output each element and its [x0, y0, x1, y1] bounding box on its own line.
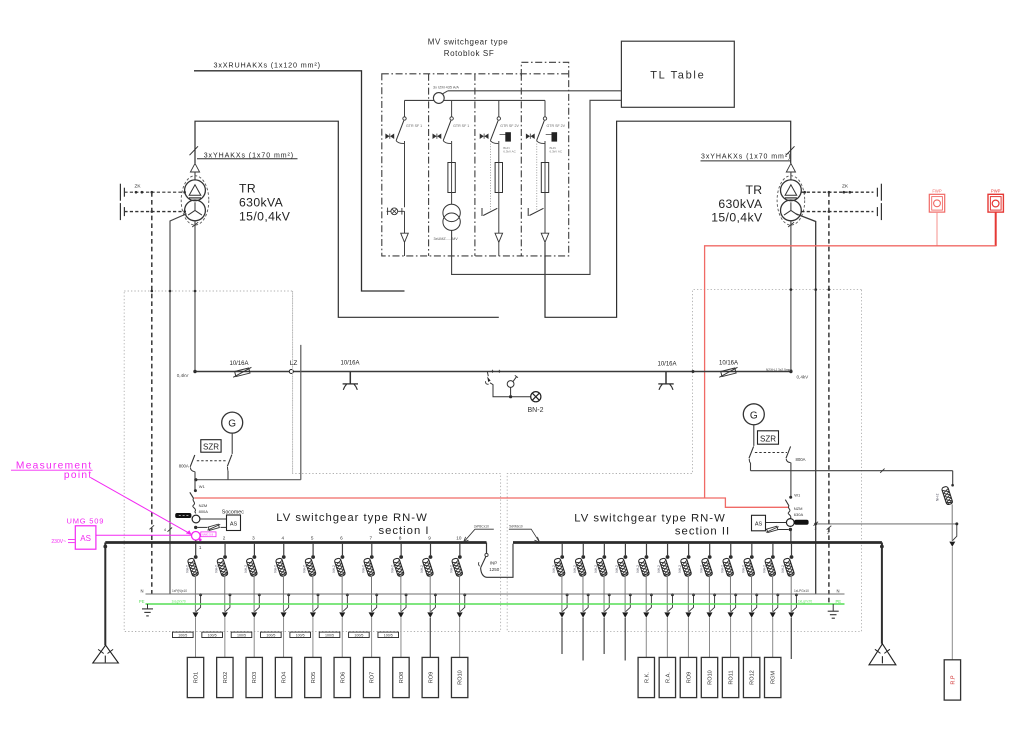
svg-text:15/0,4kV: 15/0,4kV	[711, 211, 763, 225]
feeder section II outgoing 1	[561, 544, 563, 555]
svg-text:100/5: 100/5	[178, 634, 187, 638]
changeover switch pair W1/SZR (section I)	[190, 455, 195, 467]
feeder section II outgoing 10 RO12	[751, 544, 753, 555]
generator G (section I)	[222, 412, 243, 433]
feeder section II outgoing 3	[603, 544, 605, 555]
wire: MV bay4 to right transformer	[545, 121, 791, 317]
svg-text:TL Table: TL Table	[650, 70, 705, 82]
MV bay switch GTR SF 2V at x=545	[544, 100, 546, 116]
svg-text:W1: W1	[199, 484, 206, 489]
svg-text:6: 6	[340, 536, 343, 541]
boundary crossing points	[151, 290, 154, 293]
cable tag right of coupler	[509, 529, 540, 542]
svg-text:NH-2: NH-2	[273, 565, 277, 573]
svg-text:RO8: RO8	[399, 672, 405, 684]
fuse (AS supply)	[208, 524, 219, 530]
svg-text:1xP(N)x10: 1xP(N)x10	[172, 589, 187, 593]
svg-text:GTR SF 2V: GTR SF 2V	[500, 124, 519, 128]
meter circle	[192, 515, 200, 523]
svg-text:N: N	[837, 589, 840, 594]
feeder section II outgoing 6 R.A.	[667, 544, 669, 555]
svg-text:AS: AS	[755, 522, 763, 528]
svg-text:RO2: RO2	[223, 672, 229, 684]
svg-text:NH-2: NH-2	[215, 565, 219, 573]
svg-text:NH-2: NH-2	[552, 565, 556, 573]
svg-text:3x IZM 435 A/A: 3x IZM 435 A/A	[433, 86, 459, 90]
svg-text:NH-2: NH-2	[720, 565, 724, 573]
svg-text:AS: AS	[80, 534, 91, 543]
wire: LZ riser	[300, 345, 302, 480]
svg-text:GTR SF 2V: GTR SF 2V	[547, 124, 566, 128]
svg-text:RO5: RO5	[311, 672, 317, 684]
svg-text:section II: section II	[675, 525, 730, 537]
svg-text:NH-2: NH-2	[185, 565, 189, 573]
svg-text:10/16A: 10/16A	[719, 361, 738, 367]
SZR box (section I)	[201, 440, 221, 453]
svg-text:R.P: R.P	[950, 675, 956, 685]
wire: TL Table to MV bay2 VT	[452, 100, 622, 274]
svg-text:SZR: SZR	[760, 435, 776, 444]
svg-text:RO6: RO6	[340, 672, 346, 684]
svg-text:LZ: LZ	[290, 360, 298, 367]
svg-text:NH-2: NH-2	[361, 565, 365, 573]
svg-text:FWP: FWP	[932, 188, 942, 193]
meter circle II	[786, 519, 794, 527]
bay fuse + earthing switch at x=545	[544, 141, 546, 163]
svg-text:0,4kV: 0,4kV	[177, 373, 190, 378]
svg-text:800A: 800A	[199, 509, 209, 514]
lamp circuit BN-2	[486, 372, 489, 376]
svg-text:3: 3	[252, 536, 255, 541]
fuse (AS supply) II	[767, 526, 778, 532]
svg-text:NH-2: NH-2	[936, 493, 940, 501]
svg-text:NH-2: NH-2	[657, 565, 661, 573]
svg-text:section I: section I	[378, 525, 429, 537]
wire: transformer secondary	[194, 221, 196, 372]
wire: transformer secondary	[790, 221, 792, 372]
svg-text:1xLgYx70: 1xLgYx70	[798, 599, 812, 603]
svg-text:5: 5	[311, 536, 314, 541]
svg-text:N: N	[140, 589, 143, 594]
metering CT (black)	[176, 513, 191, 517]
wire: 0,4kV auxiliary bus	[195, 371, 791, 373]
svg-text:GTR SF 1: GTR SF 1	[406, 124, 422, 128]
svg-text:0,4kV: 0,4kV	[797, 375, 810, 380]
LV switchgear section II dotted boundary	[507, 290, 861, 632]
svg-text:NH-2: NH-2	[391, 565, 395, 573]
svg-text:NH-2: NH-2	[741, 565, 745, 573]
svg-text:UMG 509: UMG 509	[67, 517, 105, 526]
svg-text:NZM: NZM	[199, 503, 208, 508]
svg-text:1: 1	[199, 545, 202, 550]
svg-text:5xRMx10: 5xRMx10	[509, 525, 523, 529]
svg-text:630kVA: 630kVA	[718, 197, 763, 211]
wire: incomer II	[790, 463, 792, 497]
svg-text:100/5: 100/5	[266, 634, 275, 638]
svg-text:RO4: RO4	[282, 672, 288, 684]
svg-text:10: 10	[456, 536, 462, 541]
metering CT (black) II	[795, 520, 809, 524]
svg-text:10/16A: 10/16A	[657, 361, 676, 367]
svg-text:15/0,4kV: 15/0,4kV	[239, 210, 291, 224]
wire: CT to TL Table	[448, 90, 622, 92]
svg-text:4: 4	[164, 528, 166, 532]
svg-text:3xYHAKXs (1x70 mm²): 3xYHAKXs (1x70 mm²)	[701, 154, 791, 161]
switch drive	[526, 134, 534, 139]
surge arrester column left	[104, 543, 106, 646]
svg-text:RGM: RGM	[771, 671, 777, 684]
svg-text:7: 7	[370, 536, 373, 541]
svg-text:point: point	[64, 470, 93, 481]
SZR box (section II)	[758, 431, 779, 444]
wire: MV cabinet bus	[405, 99, 546, 101]
svg-text:NH-2: NH-2	[678, 565, 682, 573]
svg-text:INP: INP	[490, 561, 498, 566]
MV bay switch GTR SF 2V at x=498.8	[498, 100, 500, 116]
svg-text:NH-2: NH-2	[615, 565, 619, 573]
svg-text:R.K.: R.K.	[644, 672, 650, 683]
svg-text:NH-2: NH-2	[332, 565, 336, 573]
svg-text:3xUMZ......MV: 3xUMZ......MV	[434, 237, 459, 241]
transformer TR 630kVA (right)	[786, 146, 795, 155]
svg-text:1250: 1250	[489, 567, 500, 572]
svg-text:800A: 800A	[796, 457, 806, 462]
svg-text:100/5: 100/5	[208, 634, 217, 638]
feeder section II outgoing 8 RO10	[709, 544, 711, 555]
wire: UMG to measurement point	[96, 534, 191, 536]
TL Table box	[621, 41, 734, 107]
svg-text:W1: W1	[794, 493, 801, 498]
svg-text:2: 2	[815, 527, 817, 531]
wire: red trip circuit	[705, 246, 996, 498]
svg-text:NZM: NZM	[794, 506, 803, 511]
MV bay switch GTR SF 1 at x=451.6	[451, 100, 453, 116]
wire: MV incoming cable	[194, 71, 405, 291]
svg-text:NH-2: NH-2	[420, 565, 424, 573]
svg-text:R.A.: R.A.	[665, 672, 671, 683]
wire: generator coupling to R.P feeder	[751, 470, 953, 472]
LV main bus section I	[105, 541, 486, 544]
lamp BN-2	[531, 392, 541, 402]
feeder RO1 (section I outgoing 1)	[195, 544, 197, 555]
svg-text:RO11: RO11	[729, 670, 735, 684]
svg-text:MV switchgear type: MV switchgear type	[428, 38, 509, 47]
svg-text:2: 2	[223, 536, 226, 541]
svg-text:NH-2: NH-2	[573, 565, 577, 573]
feeder section II outgoing 5 R.K.	[645, 544, 647, 555]
svg-text:ZK: ZK	[842, 183, 849, 189]
wire down to main breaker	[194, 480, 196, 491]
generator G (section II)	[743, 404, 764, 425]
svg-text:PE: PE	[139, 599, 145, 604]
measurement point (magenta circle)	[192, 532, 201, 541]
feeder section II outgoing 12	[791, 544, 793, 555]
svg-text:1xLgYx70: 1xLgYx70	[172, 599, 186, 603]
svg-text:SZR: SZR	[203, 443, 219, 452]
svg-text:6,3kV AC: 6,3kV AC	[550, 150, 563, 154]
wire: MV bay3 to left transformer	[195, 121, 499, 317]
svg-text:AS: AS	[230, 521, 238, 527]
svg-text:N2XH-J 3x2,5mm²: N2XH-J 3x2,5mm²	[766, 368, 792, 372]
svg-text:100/5: 100/5	[237, 634, 246, 638]
wire: neutral branch to R.P	[816, 523, 957, 525]
feeder R.P (generator supplied)	[952, 471, 954, 487]
wire: right transformer neutral	[796, 214, 816, 594]
svg-text:10/16A: 10/16A	[340, 361, 359, 367]
svg-text:NH-2: NH-2	[449, 565, 453, 573]
svg-text:UMG 5.9: UMG 5.9	[202, 533, 213, 537]
earth symbol right	[832, 604, 834, 611]
MV cabinet top notch (bay 4)	[521, 62, 568, 76]
current transformer 3x IZM 435 A/A	[443, 91, 448, 94]
svg-text:2: 2	[827, 531, 829, 535]
svg-text:230V~: 230V~	[51, 539, 66, 545]
svg-text:4: 4	[281, 536, 284, 541]
svg-text:8: 8	[399, 536, 402, 541]
main breaker NZM 800A (section I)	[190, 492, 194, 498]
pushbutton	[509, 395, 512, 398]
svg-text:RO12: RO12	[750, 670, 756, 685]
bay fuse + earthing switch at x=498.8	[498, 141, 500, 163]
transformer TR 630kVA (left)	[190, 146, 199, 155]
protective earth bus PE (green)	[146, 603, 845, 605]
svg-text:NH-2: NH-2	[594, 565, 598, 573]
svg-text:BN-2: BN-2	[528, 407, 544, 414]
svg-text:RO3: RO3	[252, 672, 258, 684]
svg-text:6,3kV AC: 6,3kV AC	[503, 150, 516, 154]
svg-text:RO10: RO10	[458, 670, 464, 685]
feeder section II outgoing 2	[582, 544, 584, 555]
svg-text:PE: PE	[836, 599, 842, 604]
wire: left transformer neutral	[170, 214, 187, 594]
dashed neutral-earth riser right	[828, 192, 830, 604]
switch drive	[386, 134, 394, 139]
feeder section II outgoing 9 RO11	[730, 544, 732, 555]
LV switchgear section I dotted boundary	[124, 291, 500, 632]
svg-text:9: 9	[428, 536, 431, 541]
ZK earthing link left	[124, 191, 184, 193]
switch drive	[480, 134, 488, 139]
surge arrester column right	[881, 543, 883, 644]
svg-text:PWP: PWP	[991, 188, 1001, 193]
svg-text:100/5: 100/5	[296, 634, 305, 638]
main breaker NZM 630A (section II)	[785, 500, 789, 506]
svg-text:NH-2: NH-2	[781, 565, 785, 573]
svg-text:RO10: RO10	[707, 670, 713, 685]
svg-text:TR: TR	[239, 182, 256, 196]
svg-text:RO9: RO9	[428, 672, 434, 684]
svg-text:630kVA: 630kVA	[239, 195, 284, 209]
svg-text:100/5: 100/5	[384, 634, 393, 638]
dashed neutral-earth riser left	[151, 192, 153, 594]
feeder section II outgoing 7 RO9	[688, 544, 690, 555]
svg-text:630A: 630A	[794, 512, 804, 517]
svg-text:3xPBCx10: 3xPBCx10	[474, 525, 489, 529]
feeder section II outgoing 4	[624, 544, 626, 555]
svg-text:ZK: ZK	[135, 183, 142, 189]
bay2 voltage transformer 3xUMZ	[451, 193, 453, 205]
svg-text:10/16A: 10/16A	[229, 361, 248, 367]
svg-text:100/5: 100/5	[325, 634, 334, 638]
svg-text:LV switchgear type RN-W: LV switchgear type RN-W	[276, 512, 428, 524]
AS box (section II)	[766, 522, 787, 524]
svg-text:NH-2: NH-2	[763, 565, 767, 573]
wire tick marks	[168, 528, 173, 532]
svg-text:800A: 800A	[179, 464, 189, 469]
ZK earthing link right	[801, 191, 873, 193]
changeover switch pair (section II)	[749, 446, 754, 458]
svg-text:RO7: RO7	[370, 672, 376, 684]
svg-text:Rotoblok SF: Rotoblok SF	[444, 49, 495, 58]
svg-text:RO9: RO9	[686, 672, 692, 684]
svg-text:G: G	[228, 419, 236, 430]
svg-text:LV switchgear type RN-W: LV switchgear type RN-W	[574, 513, 726, 525]
svg-text:TR: TR	[745, 183, 762, 197]
svg-text:G: G	[750, 410, 758, 421]
bay1 earthing switch with lamp	[404, 141, 406, 207]
MV bay switch GTR SF 1 at x=404.5	[404, 100, 406, 116]
switch drive	[433, 134, 441, 139]
svg-text:100/5: 100/5	[354, 634, 363, 638]
svg-text:1xLPGx10: 1xLPGx10	[794, 589, 809, 593]
svg-text:NH-2: NH-2	[699, 565, 703, 573]
MV cabinet internal dividers	[428, 74, 430, 256]
svg-text:NH-2: NH-2	[303, 565, 307, 573]
MV switchgear cabinet Rotoblok SF (dash-dot outline)	[382, 74, 569, 256]
svg-text:NH-2: NH-2	[244, 565, 248, 573]
neutral bus N	[146, 593, 845, 595]
bay2 MV fuse	[451, 141, 453, 163]
svg-text:GTR SF 1: GTR SF 1	[453, 124, 469, 128]
svg-text:3xXRUHAKXs (1x120 mm²): 3xXRUHAKXs (1x120 mm²)	[214, 61, 321, 70]
svg-text:NH-2: NH-2	[636, 565, 640, 573]
feeder section II outgoing 11 RGM	[772, 544, 774, 555]
earth symbol left	[147, 604, 149, 609]
LV main bus section II	[513, 541, 882, 544]
svg-text:RO1: RO1	[194, 672, 200, 684]
cable tag left of coupler	[464, 529, 494, 542]
bus coupler INP 1250	[486, 543, 488, 554]
bay1 cable arrow	[404, 211, 406, 233]
